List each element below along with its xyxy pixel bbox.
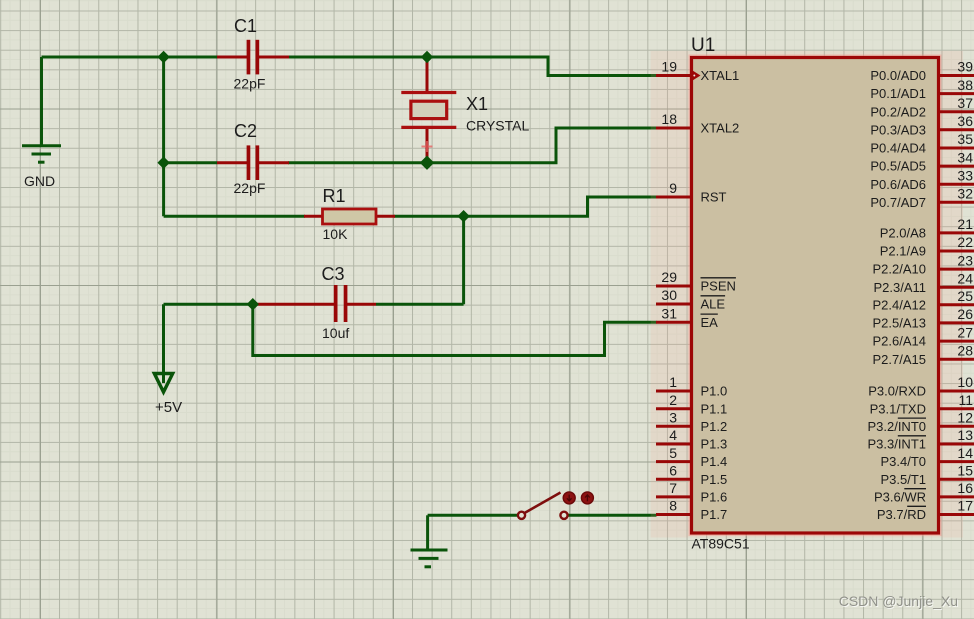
svg-text:P3.4/T0: P3.4/T0 xyxy=(880,454,926,469)
svg-text:12: 12 xyxy=(957,410,973,426)
svg-text:17: 17 xyxy=(957,498,973,514)
ground (under switch) xyxy=(411,550,448,567)
svg-text:P0.5/AD5: P0.5/AD5 xyxy=(870,159,926,174)
U1 pin 19 stub (XTAL1) xyxy=(656,74,692,77)
U1 pin 14 stub (P3.4/T0) xyxy=(939,460,974,463)
svg-text:29: 29 xyxy=(661,269,677,285)
svg-text:RST: RST xyxy=(701,190,727,205)
svg-text:P1.4: P1.4 xyxy=(701,454,728,469)
U1 pin 9 stub (RST) xyxy=(656,196,692,199)
svg-text:XTAL1: XTAL1 xyxy=(701,68,740,83)
U1 pin 25 stub (P2.4/A12) xyxy=(939,303,974,306)
svg-text:P1.1: P1.1 xyxy=(701,401,728,416)
U1 pin 36 stub (P0.3/AD3) xyxy=(939,128,974,131)
svg-text:X1: X1 xyxy=(466,94,488,114)
U1 pin 33 stub (P0.6/AD6) xyxy=(939,183,974,186)
svg-text:9: 9 xyxy=(669,180,677,196)
svg-text:37: 37 xyxy=(957,95,973,111)
svg-text:C3: C3 xyxy=(322,264,345,284)
svg-text:8: 8 xyxy=(669,498,677,514)
svg-text:P3.2/INT0: P3.2/INT0 xyxy=(867,419,926,434)
svg-text:P0.0/AD0: P0.0/AD0 xyxy=(870,68,926,83)
svg-text:32: 32 xyxy=(957,186,973,202)
svg-text:23: 23 xyxy=(957,252,973,268)
U1 pin 37 stub (P0.2/AD2) xyxy=(939,110,974,113)
U1 pin 5 stub (P1.4) xyxy=(656,460,692,463)
svg-text:P0.3/AD3: P0.3/AD3 xyxy=(870,122,926,137)
svg-text:24: 24 xyxy=(957,271,973,287)
U1 pin 39 stub (P0.0/AD0) xyxy=(939,74,974,77)
svg-text:P0.7/AD7: P0.7/AD7 xyxy=(870,195,926,210)
U1 pin 7 stub (P1.6) xyxy=(656,495,692,498)
U1 pin 22 stub (P2.1/A9) xyxy=(939,250,974,253)
U1 pin 10 stub (P3.0/RXD) xyxy=(939,390,974,393)
svg-text:7: 7 xyxy=(669,480,677,496)
U1 pin 26 stub (P2.5/A13) xyxy=(939,321,974,324)
svg-text:5: 5 xyxy=(669,445,677,461)
U1 left pin labels xyxy=(701,68,740,522)
wire XTAL1 net: C1 right to U1 pin 19 xyxy=(288,57,657,76)
svg-text:P1.5: P1.5 xyxy=(701,472,728,487)
node: +5V/C3 junction xyxy=(247,299,258,310)
U1 pin 32 stub (P0.7/AD7) xyxy=(939,201,974,204)
svg-text:P0.4/AD4: P0.4/AD4 xyxy=(870,141,926,156)
U1 pin 1 stub (P1.0) xyxy=(656,390,692,393)
crystal X1 xyxy=(401,57,456,163)
svg-text:P3.1/TXD: P3.1/TXD xyxy=(870,401,926,416)
svg-text:C1: C1 xyxy=(234,16,257,36)
svg-text:P2.7/A15: P2.7/A15 xyxy=(873,352,927,367)
resistor R1 xyxy=(304,209,395,224)
U1 pin 29 stub (PSEN) xyxy=(656,285,692,288)
svg-text:P2.6/A14: P2.6/A14 xyxy=(873,334,927,349)
wire EA net: junction down and to U1 pin 31 xyxy=(253,304,657,355)
svg-text:P1.6: P1.6 xyxy=(701,490,728,505)
svg-text:10K: 10K xyxy=(323,226,349,242)
svg-text:1: 1 xyxy=(669,374,677,390)
U1 pin 35 stub (P0.4/AD4) xyxy=(939,147,974,150)
svg-text:13: 13 xyxy=(957,427,973,443)
U1 pin 28 stub (P2.7/A15) xyxy=(939,358,974,361)
switch actuator buttons xyxy=(563,492,593,504)
svg-text:P0.6/AD6: P0.6/AD6 xyxy=(870,177,926,192)
U1 pin 2 stub (P1.1) xyxy=(656,407,692,410)
U1 highlight region xyxy=(651,51,963,538)
wire XTAL1 net: GND cap rail to C1 left xyxy=(42,56,218,59)
U1 pin 27 stub (P2.6/A14) xyxy=(939,340,974,343)
node: crystal top junction xyxy=(422,52,433,63)
U1 pin 11 stub (P3.1/TXD) xyxy=(939,407,974,410)
svg-text:CSDN @Junjie_Xu: CSDN @Junjie_Xu xyxy=(839,593,958,609)
svg-text:P3.5/T1: P3.5/T1 xyxy=(880,472,926,487)
svg-text:R1: R1 xyxy=(323,186,346,206)
U1 pin 8 stub (P1.7) xyxy=(656,513,692,516)
U1 right pin numbers xyxy=(957,59,973,514)
svg-text:GND: GND xyxy=(24,173,55,189)
wire XTAL2 net: bus to C2 left xyxy=(164,161,217,164)
U1 pin 13 stub (P3.3/INT1) xyxy=(939,443,974,446)
capacitor C2 xyxy=(217,145,289,180)
svg-text:38: 38 xyxy=(957,77,973,93)
wire RST net: bus to R1 left xyxy=(164,215,305,218)
svg-text:CRYSTAL: CRYSTAL xyxy=(466,118,529,134)
svg-text:11: 11 xyxy=(958,392,973,408)
U1 pin 19 clock arrow xyxy=(693,71,701,81)
svg-text:3: 3 xyxy=(669,410,677,426)
svg-text:P3.0/RXD: P3.0/RXD xyxy=(868,384,926,399)
switch SW (P1.7 to ground) xyxy=(518,493,568,519)
svg-text:16: 16 xyxy=(957,480,973,496)
U1 pin 30 stub (ALE) xyxy=(656,303,692,306)
U1 pin 38 stub (P0.1/AD1) xyxy=(939,92,974,95)
U1 pin 24 stub (P2.3/A11) xyxy=(939,286,974,289)
svg-text:25: 25 xyxy=(957,288,973,304)
U1 right pin labels xyxy=(867,68,926,522)
svg-text:15: 15 xyxy=(957,462,973,478)
svg-text:P0.1/AD1: P0.1/AD1 xyxy=(870,86,926,101)
capacitor C1 xyxy=(217,40,289,75)
wire P1.7 net: ground to switch xyxy=(428,514,519,517)
svg-text:22pF: 22pF xyxy=(234,180,266,196)
svg-text:U1: U1 xyxy=(691,35,715,56)
svg-text:P2.3/A11: P2.3/A11 xyxy=(873,280,926,295)
svg-text:P0.2/AD2: P0.2/AD2 xyxy=(870,104,926,119)
wire left bus vertical (C1/C2/R1) xyxy=(162,55,165,216)
svg-text:2: 2 xyxy=(669,392,677,408)
U1 pin 15 stub (P3.5/T1) xyxy=(939,478,974,481)
svg-text:14: 14 xyxy=(957,445,973,461)
power +5V arrow xyxy=(154,374,172,393)
node: C2/bus junction xyxy=(158,157,169,168)
svg-text:P2.1/A9: P2.1/A9 xyxy=(880,244,926,259)
wire GND stem xyxy=(40,57,43,146)
svg-text:P1.2: P1.2 xyxy=(701,419,728,434)
svg-text:10: 10 xyxy=(957,374,973,390)
U1 pin 31 stub (EA) xyxy=(656,321,692,324)
wire XTAL2 net: C2 right to U1 pin 18 xyxy=(288,128,657,163)
U1 pin 34 stub (P0.5/AD5) xyxy=(939,165,974,168)
svg-text:21: 21 xyxy=(957,216,973,232)
node: C1/bus junction xyxy=(158,52,169,63)
U1 pin 3 stub (P1.2) xyxy=(656,425,692,428)
U1 pin 12 stub (P3.2/INT0) xyxy=(939,425,974,428)
svg-text:34: 34 xyxy=(957,149,973,165)
svg-text:P2.4/A12: P2.4/A12 xyxy=(873,297,927,312)
U1 pin 6 stub (P1.5) xyxy=(656,478,692,481)
U1 selection glow xyxy=(692,58,939,534)
svg-text:10uf: 10uf xyxy=(322,325,349,341)
U1 pin 18 stub (XTAL2) xyxy=(656,127,692,130)
svg-text:XTAL2: XTAL2 xyxy=(701,121,740,136)
svg-text:ALE: ALE xyxy=(701,297,726,312)
wire RST junction vertical to C3 right xyxy=(462,216,465,304)
U1 pin 16 stub (P3.6/WR) xyxy=(939,495,974,498)
svg-text:6: 6 xyxy=(669,462,677,478)
svg-text:P1.7: P1.7 xyxy=(701,507,728,522)
svg-text:33: 33 xyxy=(957,167,973,183)
U1 pin 21 stub (P2.0/A8) xyxy=(939,231,974,234)
svg-text:C2: C2 xyxy=(234,121,257,141)
svg-text:36: 36 xyxy=(957,113,973,129)
U1 pin 4 stub (P1.3) xyxy=(656,443,692,446)
svg-text:+5V: +5V xyxy=(155,399,182,416)
svg-text:P3.6/WR: P3.6/WR xyxy=(874,490,926,505)
svg-text:18: 18 xyxy=(661,111,677,127)
svg-text:P3.7/RD: P3.7/RD xyxy=(877,507,926,522)
svg-text:39: 39 xyxy=(957,59,973,75)
wire RST net: R1 right to U1 pin 9 xyxy=(394,197,657,216)
wire P1.7 net: switch to U1 pin 8 xyxy=(568,514,657,517)
U1 left pin numbers xyxy=(661,59,677,514)
svg-text:26: 26 xyxy=(957,306,973,322)
svg-text:22pF: 22pF xyxy=(234,76,266,92)
svg-text:EA: EA xyxy=(701,315,719,330)
wire +5V rail to C3 left xyxy=(164,303,254,306)
U1 pin 23 stub (P2.2/A10) xyxy=(939,268,974,271)
IC U1 AT89C51 body xyxy=(692,58,939,534)
node: RST junction xyxy=(458,211,469,222)
capacitor C3 xyxy=(253,285,376,322)
svg-text:19: 19 xyxy=(661,59,677,75)
U1 pin 17 stub (P3.7/RD) xyxy=(939,513,974,516)
U1 active-low overlines xyxy=(701,278,927,507)
wire C3 right to RST vertical xyxy=(376,303,464,306)
svg-text:31: 31 xyxy=(661,306,677,322)
svg-text:P2.0/A8: P2.0/A8 xyxy=(880,226,926,241)
svg-text:4: 4 xyxy=(669,427,677,443)
svg-text:22: 22 xyxy=(957,234,973,250)
svg-text:27: 27 xyxy=(957,324,973,340)
svg-text:P2.2/A10: P2.2/A10 xyxy=(873,262,927,277)
svg-text:28: 28 xyxy=(957,342,973,358)
node: crystal bottom junction xyxy=(421,156,434,169)
svg-text:PSEN: PSEN xyxy=(701,279,736,294)
svg-text:P2.5/A13: P2.5/A13 xyxy=(873,316,927,331)
svg-text:P1.3: P1.3 xyxy=(701,437,728,452)
svg-text:30: 30 xyxy=(661,287,677,303)
svg-text:35: 35 xyxy=(957,131,973,147)
wire switch ground stem xyxy=(426,515,429,549)
ground (left) xyxy=(22,146,61,163)
wire +5V stem xyxy=(162,304,165,383)
svg-text:AT89C51: AT89C51 xyxy=(692,536,750,552)
svg-text:P3.3/INT1: P3.3/INT1 xyxy=(867,437,926,452)
svg-text:P1.0: P1.0 xyxy=(701,384,728,399)
